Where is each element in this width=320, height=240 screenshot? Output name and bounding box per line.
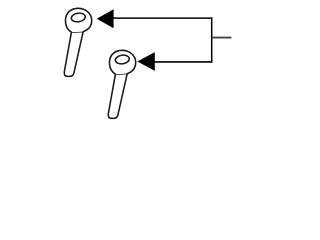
wire: leader line to arrowhead A2	[154, 61, 213, 63]
wire: stub to part number (gray)	[212, 37, 231, 39]
bolt B1 head recess	[71, 12, 86, 22]
bolt B2 head outline	[109, 50, 135, 74]
bolt B1 shaft	[64, 32, 83, 77]
wire: vertical bracket joining both leader lines	[211, 17, 213, 62]
arrowhead A2 (points to bolt B2)	[137, 52, 154, 71]
bolt B2 head recess	[115, 54, 130, 64]
bolt B2 (lower-middle)	[108, 50, 135, 118]
bolt B2 shaft	[108, 74, 127, 119]
bolt B1 head outline	[65, 8, 91, 32]
arrowhead A1 (points to bolt B1)	[97, 9, 114, 28]
bolt B1 (upper-left)	[64, 8, 91, 76]
wire: leader line to arrowhead A1	[113, 17, 213, 19]
